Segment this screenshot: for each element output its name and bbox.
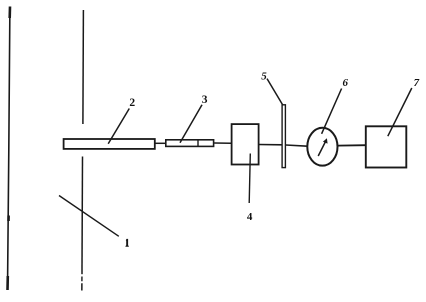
svg-text:5: 5 [261, 71, 267, 83]
svg-text:7: 7 [414, 77, 420, 89]
svg-text:2: 2 [129, 97, 135, 109]
svg-text:4: 4 [247, 211, 253, 223]
svg-text:3: 3 [202, 94, 208, 106]
svg-text:6: 6 [343, 77, 349, 89]
